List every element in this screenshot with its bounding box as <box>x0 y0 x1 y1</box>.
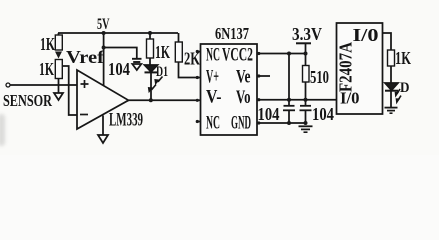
svg-text:1K: 1K <box>39 59 54 79</box>
svg-text:1K: 1K <box>155 42 170 62</box>
svg-text:3.3V: 3.3V <box>292 24 322 44</box>
svg-text:SENSOR: SENSOR <box>3 91 53 110</box>
svg-text:1K: 1K <box>40 34 55 54</box>
svg-text:Vref: Vref <box>66 47 105 67</box>
svg-text:2K: 2K <box>184 49 200 69</box>
svg-text:1K: 1K <box>395 48 411 68</box>
svg-text:V+: V+ <box>206 67 219 88</box>
svg-text:I/0: I/0 <box>353 25 379 45</box>
svg-text:5V: 5V <box>97 16 110 33</box>
svg-text:F2407A: F2407A <box>336 42 356 92</box>
svg-text:6N137: 6N137 <box>215 24 249 43</box>
svg-text:V-: V- <box>206 87 222 108</box>
svg-text:LM339: LM339 <box>109 110 143 131</box>
svg-text:104: 104 <box>108 59 130 79</box>
svg-text:104: 104 <box>258 104 280 124</box>
svg-text:Vo: Vo <box>236 87 251 108</box>
svg-text:GND: GND <box>231 113 251 134</box>
svg-text:VCC2: VCC2 <box>222 45 253 66</box>
svg-text:Ve: Ve <box>236 67 251 88</box>
svg-text:104: 104 <box>312 104 334 124</box>
svg-text:NC: NC <box>206 45 220 66</box>
svg-text:510: 510 <box>310 67 329 87</box>
svg-text:D: D <box>400 80 410 96</box>
svg-text:D1: D1 <box>156 64 168 80</box>
svg-text:NC: NC <box>206 113 220 134</box>
